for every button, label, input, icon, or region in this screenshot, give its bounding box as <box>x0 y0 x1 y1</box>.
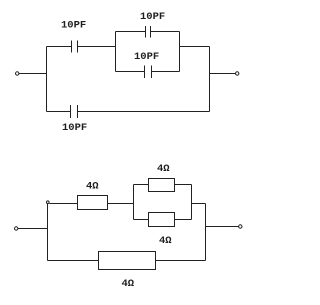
wire <box>156 260 206 262</box>
capacitor C3 <box>145 66 152 79</box>
resistor R2 <box>149 179 175 192</box>
capacitor C2 <box>146 26 151 38</box>
svg-text:4Ω: 4Ω <box>159 235 172 247</box>
wire <box>48 260 99 262</box>
wire <box>175 219 192 221</box>
wire <box>151 31 180 33</box>
wire (right bus vertical) <box>205 204 207 261</box>
node A (junction dot) <box>47 201 50 204</box>
resistor R4 <box>99 252 156 270</box>
terminal T2 (right output, capacitor network) <box>236 72 239 75</box>
wire <box>175 184 192 186</box>
wire (parallel box right vertical) <box>191 185 193 220</box>
wire <box>47 111 71 113</box>
wire <box>206 226 239 228</box>
svg-text:10PF: 10PF <box>62 122 87 134</box>
wire <box>19 73 47 75</box>
resistor R3 <box>149 213 175 227</box>
wire (left bus vertical) <box>47 204 49 261</box>
wire (parallel box right vertical) <box>179 32 181 72</box>
wire <box>134 219 149 221</box>
terminal T1 (left input, capacitor network) <box>16 72 19 75</box>
resistor R1 <box>78 196 108 210</box>
svg-text:10PF: 10PF <box>140 11 165 23</box>
terminal T4 (right output, resistor network) <box>239 225 242 228</box>
wire <box>18 228 48 230</box>
wire <box>49 203 77 205</box>
wire (parallel box left vertical) <box>115 32 117 72</box>
wire <box>47 46 72 48</box>
wire (parallel box left vertical) <box>133 185 135 220</box>
wire <box>152 71 180 73</box>
svg-text:10PF: 10PF <box>134 51 159 63</box>
svg-text:4Ω: 4Ω <box>86 181 99 193</box>
wire <box>192 203 206 205</box>
wire (left bus vertical) <box>46 47 48 112</box>
svg-text:10PF: 10PF <box>61 20 86 32</box>
wire <box>108 203 134 205</box>
wire <box>78 111 210 113</box>
capacitor C4 <box>71 105 78 118</box>
wire <box>134 184 149 186</box>
capacitor C1 <box>72 41 78 53</box>
wire <box>210 73 236 75</box>
wire <box>180 46 210 48</box>
wire <box>116 71 145 73</box>
wire <box>116 31 146 33</box>
wire <box>78 46 116 48</box>
svg-text:4Ω: 4Ω <box>157 163 170 175</box>
wire (right bus vertical) <box>209 47 211 112</box>
terminal T3 (left input, resistor network) <box>15 227 18 230</box>
svg-text:4Ω: 4Ω <box>122 278 135 290</box>
